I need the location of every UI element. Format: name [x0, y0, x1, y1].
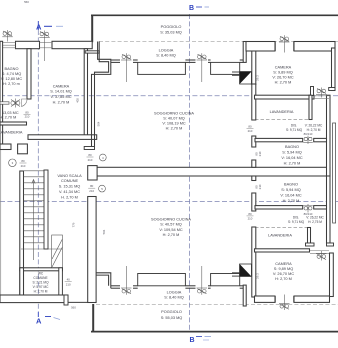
svg-text:504: 504: [102, 229, 106, 234]
svg-text:H: 2,70 M: H: 2,70 M: [0, 116, 16, 120]
wc top wall: [20, 268, 63, 271]
dis door tiny label lower: [304, 212, 313, 216]
poggiolo bottom wall: [91, 331, 338, 333]
lavanderia dashed divider bottom right: [255, 227, 308, 229]
camera bottom wall (left block): [28, 135, 97, 140]
bagno door arc: [22, 99, 28, 107]
svg-text:V: 26,70 MC: V: 26,70 MC: [273, 272, 294, 276]
text BAGNO upper right: [281, 145, 302, 166]
bagno door rotated label upper: [255, 151, 263, 156]
svg-text:B: B: [189, 5, 194, 12]
svg-text:H: 2,70 M: H: 2,70 M: [284, 162, 301, 166]
svg-text:V: 12,80 MC: V: 12,80 MC: [1, 77, 22, 81]
svg-text:H: 2,70 M: H: 2,70 M: [34, 290, 48, 294]
cap soggiorno west to camera wall: [84, 147, 94, 150]
lavanderia bottom wall: [0, 144, 11, 150]
left block bottom wall: [0, 295, 68, 303]
outer duct column right: [333, 123, 336, 223]
svg-text:POGGIOLO: POGGIOLO: [161, 25, 182, 29]
bagno door label 80/210: [24, 111, 31, 119]
glass door recess box 2 upper: [211, 62, 240, 74]
svg-text:BAGNO: BAGNO: [285, 145, 299, 149]
svg-text:80/210: 80/210: [304, 132, 313, 136]
text POGGIOLO bottom: [161, 310, 183, 320]
soggiorno east wall upper p2a: [252, 136, 256, 147]
window segment lower right: [310, 251, 329, 254]
section marker B bottom: [190, 337, 212, 345]
svg-text:V. 41,34 MC: V. 41,34 MC: [59, 190, 80, 194]
svg-text:80: 80: [90, 184, 94, 188]
wc east wall: [59, 268, 63, 296]
window bottom camera jambs: [276, 296, 294, 302]
svg-text:210: 210: [25, 115, 30, 119]
svg-text:210: 210: [248, 129, 253, 133]
window loggia 2 with radiator: [197, 53, 208, 82]
soggiorno east wall lower p1b: [252, 193, 256, 211]
camera top wall right block seg1: [246, 42, 275, 52]
dis door tiny label upper: [304, 132, 313, 136]
svg-text:H: 2,70 M: H: 2,70 M: [307, 128, 321, 132]
stair treads: [24, 171, 45, 243]
svg-text:504: 504: [97, 121, 101, 126]
svg-text:H. 2,70 M: H. 2,70 M: [53, 101, 70, 105]
loggia east jamb lower: [243, 285, 246, 306]
loggia-soggiorno wall upper: [111, 60, 243, 62]
svg-text:COMUNE: COMUNE: [33, 276, 47, 280]
balcony dashed divider bottom: [96, 303, 338, 305]
bagno door rotated label lower: [255, 184, 263, 189]
svg-text:26.2: 26.2: [256, 273, 260, 279]
window 2 in top wall: [40, 43, 53, 48]
text CAMERA lower right: [273, 262, 294, 281]
svg-text:S. 15,31 MQ: S. 15,31 MQ: [59, 185, 81, 189]
glass door recess box 1 lower: [138, 274, 186, 286]
door number 5 circle: [99, 185, 106, 192]
text SOGGIORNO CUCINA upper: [154, 112, 194, 131]
svg-text:S: 5,94 MQ: S: 5,94 MQ: [282, 151, 301, 155]
svg-text:V: 16,04 MC: V: 16,04 MC: [280, 194, 301, 198]
svg-text:210: 210: [88, 158, 93, 162]
svg-text:LAVANDERIA: LAVANDERIA: [0, 131, 23, 135]
section marker A top: [36, 21, 63, 32]
camera top wall (lower right room): [255, 249, 310, 252]
svg-text:80: 80: [21, 159, 25, 163]
radiator below bottom camera window: [279, 295, 290, 311]
radiator above top camera window: [279, 35, 290, 52]
loggia east jamb: [243, 42, 246, 63]
bagno bottom wall lower right: [255, 206, 303, 209]
text DIS lower: [288, 216, 325, 225]
section line A vertical: [37, 30, 39, 312]
svg-text:A: A: [36, 23, 42, 32]
text DIS upper: [286, 124, 323, 133]
svg-text:560: 560: [24, 0, 29, 4]
svg-text:LAVANDERIA: LAVANDERIA: [270, 110, 294, 114]
left site boundary thin line: [0, 145, 2, 300]
wall stub left of radiator: [0, 102, 9, 104]
svg-text:V: 5,97 MC: V: 5,97 MC: [33, 285, 50, 289]
radiator above window 2: [39, 31, 50, 62]
radiator in bagno: [11, 99, 20, 108]
svg-text:DIS.: DIS.: [293, 216, 299, 220]
text CAMERA upper right: [272, 66, 293, 85]
svg-text:H: 2,70 M: H: 2,70 M: [275, 81, 292, 85]
svg-text:776: 776: [72, 222, 76, 227]
svg-text:V: 26,22 MC: V: 26,22 MC: [305, 124, 323, 128]
section line horizontal upper: [0, 95, 338, 97]
svg-text:S: 9,89 MQ: S: 9,89 MQ: [274, 267, 293, 271]
text LOGGIA top: [156, 49, 175, 58]
step lower inner: [96, 275, 109, 286]
stair bottom line: [21, 248, 62, 250]
bagno lavanderia divider wall: [0, 122, 27, 125]
svg-text:CAMERA: CAMERA: [275, 66, 292, 70]
svg-text:POGGIOLO: POGGIOLO: [161, 310, 182, 314]
window loggia lower 1 with radiator: [121, 266, 132, 295]
dis-bagno wall upper: [255, 138, 303, 141]
svg-text:CAMERA: CAMERA: [53, 85, 70, 89]
stub left of pillar upper: [232, 72, 240, 75]
section line B vertical: [189, 14, 191, 331]
stair direction line with arrow: [32, 180, 35, 261]
svg-text:S. 14,01 MQ: S. 14,01 MQ: [50, 90, 72, 94]
bagno bottom wall lower seg2: [314, 206, 327, 209]
svg-text:V: 26,70 MC: V: 26,70 MC: [272, 76, 293, 80]
svg-text:402: 402: [76, 98, 80, 103]
svg-text:S: 40,07 MQ: S: 40,07 MQ: [163, 117, 185, 121]
camera east wall upper right: [332, 48, 336, 91]
glass door recess box 1 upper: [138, 62, 186, 74]
door 5 label 80/210: [88, 184, 95, 193]
glass door recess box 2 lower: [211, 274, 240, 286]
left block top wall segment 1: [16, 41, 40, 48]
svg-text:210: 210: [21, 164, 26, 168]
bottom wall thin extension: [68, 301, 92, 303]
svg-text:210: 210: [258, 151, 262, 156]
window segment right of lavanderia: [314, 96, 329, 99]
svg-text:V: 26,22 MC: V: 26,22 MC: [306, 216, 324, 220]
wall between bagno and camera: [27, 49, 31, 99]
svg-text:S: 9,71 MQ: S: 9,71 MQ: [286, 128, 303, 132]
party wall between apartments: [96, 167, 330, 176]
svg-text:210: 210: [248, 217, 253, 221]
left block west wall: [0, 41, 3, 145]
entry tab wall: [18, 144, 28, 154]
svg-text:S: 40,57 MQ: S: 40,57 MQ: [160, 223, 182, 227]
svg-text:H: 2,70 M: H: 2,70 M: [163, 233, 180, 237]
svg-text:V. 37,85 MC: V. 37,85 MC: [50, 95, 71, 99]
svg-text:V: 108,19 MC: V: 108,19 MC: [162, 122, 186, 126]
svg-text:H: 2,75 M: H: 2,75 M: [308, 220, 322, 224]
svg-text:40: 40: [67, 278, 71, 282]
svg-text:S: 2,21 MQ: S: 2,21 MQ: [32, 281, 49, 285]
svg-text:26.2: 26.2: [256, 75, 260, 81]
svg-text:210: 210: [89, 189, 94, 193]
loggia west wall and step inner face: [95, 42, 109, 147]
svg-text:LOGGIA: LOGGIA: [167, 291, 182, 295]
text lavanderia volume: [0, 111, 19, 120]
svg-text:V: 109,54 MC: V: 109,54 MC: [159, 228, 183, 232]
poggiolo top wall: [91, 14, 338, 16]
svg-text:S: 9,71 MQ: S: 9,71 MQ: [288, 220, 305, 224]
svg-text:SOGGIORNO CUCINA: SOGGIORNO CUCINA: [151, 218, 191, 222]
radiator above window left: [2, 30, 13, 42]
door number 3 circle: [9, 159, 17, 167]
left block top wall segment 2: [52, 41, 92, 48]
door 3 label 80/210: [20, 159, 27, 168]
stub wall at camera top right: [85, 51, 99, 53]
svg-text:V: 16,04 MC: V: 16,04 MC: [281, 156, 302, 160]
lower soggiorno: loggia-soggiorno wall lower: [111, 286, 243, 288]
svg-text:80: 80: [248, 212, 252, 216]
lavanderia east wall upper: [309, 95, 312, 119]
pillar lower (half filled): [240, 264, 252, 276]
svg-text:BAGNO: BAGNO: [5, 67, 19, 71]
svg-text:SOGGIORNO CUCINA: SOGGIORNO CUCINA: [154, 112, 194, 116]
svg-text:S: 9,89 MQ: S: 9,89 MQ: [273, 71, 292, 75]
radiator lower right: [316, 251, 327, 261]
door number 4 circle: [99, 154, 106, 161]
lower soggiorno west wall: [88, 197, 96, 303]
bottom wall jog: [64, 295, 68, 305]
camera bottom wall (upper right room): [255, 95, 315, 99]
wc door label 40/210: [65, 278, 72, 287]
section marker A bottom: [36, 312, 60, 326]
bagno dis east wall lower: [327, 176, 331, 243]
poggiolo left wall top: [91, 15, 93, 43]
dis door symbol upper: [303, 136, 313, 144]
svg-text:H: 2,70 M: H: 2,70 M: [166, 127, 183, 131]
svg-text:H: 2,70 m: H: 2,70 m: [3, 82, 20, 86]
soggiorno east wall lower p1a: [252, 176, 256, 181]
soggiorno east wall upper p2b: [252, 160, 256, 167]
svg-text:80: 80: [248, 125, 252, 129]
svg-text:H: 2,70 M: H: 2,70 M: [275, 277, 292, 281]
dis bagno east wall upper: [327, 95, 331, 176]
svg-text:80: 80: [88, 153, 92, 157]
window top camera jambs: [276, 42, 294, 52]
svg-text:WC: WC: [38, 272, 44, 276]
text POGGIOLO top: [160, 25, 182, 35]
text WC COMUNE: [32, 272, 49, 294]
party wall left end block: [88, 166, 97, 180]
text SOGGIORNO CUCINA lower: [151, 218, 191, 238]
window left in top wall: [0, 43, 16, 48]
camera bottom wall (bottom right block) seg1: [255, 296, 276, 302]
soggiorno east wall lower p2: [252, 227, 256, 297]
svg-text:V: 13,03 MC: V: 13,03 MC: [0, 111, 19, 115]
window loggia lower 2 with radiator: [197, 266, 208, 295]
dis door label lower: [247, 212, 254, 221]
window loggia 1 with radiator: [121, 53, 132, 82]
radiator upper right: [316, 88, 327, 98]
svg-text:LAVANDERIA: LAVANDERIA: [268, 234, 292, 238]
lavanderia east wall lower: [308, 228, 311, 246]
wc west wall: [20, 268, 24, 296]
svg-text:A: A: [36, 317, 42, 326]
svg-text:210: 210: [66, 283, 71, 287]
svg-text:S: 35,03 MQ: S: 35,03 MQ: [160, 31, 182, 35]
svg-text:H: 2,70 M: H: 2,70 M: [283, 199, 300, 203]
balcony dashed divider top (poggiolo/loggia): [99, 40, 338, 42]
camera bottom wall seg2: [294, 296, 330, 302]
east wall cap lower: [327, 243, 334, 246]
dis door symbol lower: [303, 204, 313, 213]
svg-text:S: 8,40 MQ: S: 8,40 MQ: [156, 54, 175, 58]
svg-text:210: 210: [258, 184, 262, 189]
svg-text:560: 560: [71, 306, 76, 310]
svg-text:LOGGIA: LOGGIA: [159, 49, 174, 53]
svg-text:H. 2,70 M: H. 2,70 M: [61, 196, 78, 200]
camera top wall right block seg2: [294, 42, 335, 52]
niche post above camera bottom wall: [311, 87, 314, 96]
svg-text:S: 55,03 MQ: S: 55,03 MQ: [161, 316, 183, 320]
svg-text:S: 5,94 MQ: S: 5,94 MQ: [281, 188, 300, 192]
dis door label upper: [247, 125, 254, 134]
stair shaft west wall: [20, 171, 24, 297]
camera east wall: [84, 49, 87, 137]
svg-text:CAMERA: CAMERA: [275, 262, 292, 266]
lavanderia dashed divider top right: [255, 119, 309, 121]
svg-text:BAGNO: BAGNO: [284, 183, 298, 187]
camera west wall upper right: [252, 50, 256, 85]
door 4 label 80/210: [87, 153, 94, 162]
svg-text:S: 4,74 MQ: S: 4,74 MQ: [2, 72, 21, 76]
camera east wall lower right: [330, 253, 334, 297]
text VANO SCALA: [57, 174, 82, 200]
svg-text:COMUNE: COMUNE: [61, 179, 79, 183]
text CAMERA upper left: [50, 85, 72, 105]
svg-text:S: 8,40 MQ: S: 8,40 MQ: [164, 296, 183, 300]
poggiolo left wall bottom: [92, 304, 94, 332]
text LOGGIA bottom: [164, 291, 183, 300]
stair shaft east wall: [44, 170, 48, 249]
lavanderia east wall lower cap: [306, 243, 315, 246]
section line horizontal lower: [0, 201, 338, 203]
dis-bagno wall upper seg2: [314, 138, 327, 141]
stub left of pillar lower: [232, 273, 240, 276]
camera east wall cap upper: [329, 88, 335, 91]
text BAGNO upper left: [1, 67, 22, 86]
loggia west wall and step outer face: [92, 42, 111, 147]
svg-text:B: B: [190, 337, 195, 344]
svg-text:DIS.: DIS.: [291, 124, 297, 128]
svg-text:VANO SCALA: VANO SCALA: [57, 174, 82, 178]
pillar upper (half filled): [240, 72, 252, 84]
step lower outer: [96, 273, 111, 288]
soggiorno east wall upper p1: [252, 84, 256, 120]
stair landing column with break lines: [52, 235, 63, 268]
section marker B top: [189, 5, 209, 12]
text BAGNO lower right: [280, 183, 301, 204]
